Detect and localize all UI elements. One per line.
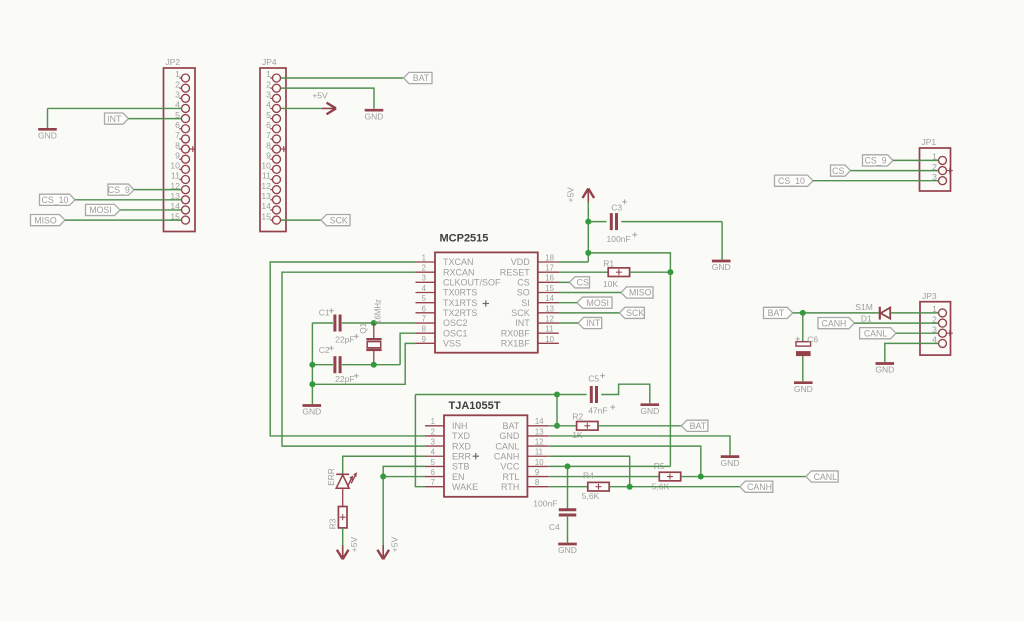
node BAT-C6 junction [800,310,806,316]
svg-text:CANL: CANL [814,472,838,482]
svg-text:7: 7 [422,314,426,323]
svg-text:VCC: VCC [500,462,520,472]
label D1 [861,314,872,324]
svg-text:GND: GND [721,458,740,468]
svg-text:BAT: BAT [690,421,707,431]
svg-text:8: 8 [535,478,539,487]
connector JP3 [920,291,953,355]
wire [383,476,425,478]
svg-text:ERR: ERR [452,451,472,461]
value 10K [603,279,618,289]
wire TXCAN-TXD [270,262,425,436]
wire [588,222,722,260]
svg-text:GND: GND [558,545,577,555]
svg-text:TX0RTS: TX0RTS [443,288,477,298]
wire [567,515,569,543]
wire [891,312,938,314]
wire [415,394,557,396]
svg-text:13: 13 [261,191,271,201]
label ERR [326,468,336,486]
wire VSS [312,343,415,384]
wire [549,446,701,476]
svg-text:GND: GND [875,365,894,375]
svg-text:10: 10 [545,335,554,344]
node CANH junction [627,484,633,490]
net label SCK [321,215,350,226]
svg-text:8: 8 [422,325,426,334]
svg-text:C3: C3 [611,203,622,213]
svg-text:3: 3 [175,90,180,100]
svg-text:CANH: CANH [821,318,846,328]
svg-text:4: 4 [422,284,427,293]
svg-text:13: 13 [545,304,554,313]
power +5V [377,537,399,560]
svg-text:JP2: JP2 [166,57,181,67]
wire [342,528,344,547]
wire [885,343,938,362]
svg-text:6: 6 [422,304,426,313]
svg-text:SCK: SCK [511,308,530,318]
svg-text:9: 9 [266,150,271,160]
power +5V [312,90,336,114]
wire RXCAN-RXD [282,272,425,446]
wire [383,466,425,547]
wire [896,332,938,334]
svg-text:10: 10 [535,458,544,467]
net label CANL [806,471,838,482]
net label INT [105,113,129,124]
svg-text:5,6K: 5,6K [582,491,600,501]
svg-text:1: 1 [431,417,435,426]
wire [312,322,415,324]
svg-text:6: 6 [266,120,271,130]
ground [712,261,731,272]
svg-text:+5V: +5V [312,90,328,100]
svg-text:EN: EN [452,472,465,482]
svg-text:R1: R1 [603,259,614,269]
svg-text:INT: INT [107,114,122,124]
svg-text:CANH: CANH [494,451,520,461]
svg-text:CS_9: CS_9 [864,156,886,166]
net label MOSI [86,204,121,215]
svg-text:BAT: BAT [768,308,785,318]
svg-text:RX0BF: RX0BF [501,328,531,338]
LED ERR [336,472,357,488]
svg-text:2: 2 [175,79,180,89]
label C1 [319,308,334,318]
svg-text:RTL: RTL [503,472,520,482]
capacitor C4 [559,510,577,515]
wire [598,425,681,427]
svg-text:RX1BF: RX1BF [501,339,531,349]
label C5 [588,373,605,383]
net label MISO [621,287,653,298]
label S1M [855,302,872,312]
svg-text:13: 13 [535,427,544,436]
svg-text:R3: R3 [327,518,337,529]
svg-text:MISO: MISO [34,215,57,225]
svg-text:3: 3 [422,274,426,283]
capacitor C2 [335,356,340,373]
svg-text:9: 9 [175,150,180,160]
wire [793,312,880,314]
svg-text:R2: R2 [572,411,583,421]
svg-text:10: 10 [170,161,180,171]
svg-text:100nF: 100nF [533,499,557,509]
wire [587,202,589,262]
ground [558,544,577,555]
label R2 [572,411,583,421]
svg-text:GND: GND [365,111,384,121]
svg-text:C4: C4 [549,522,560,532]
node VCC-C4 junction [565,463,571,469]
svg-text:BAT: BAT [413,73,430,83]
wire [802,356,804,381]
value 22pF [335,334,359,345]
svg-text:CS_9: CS_9 [108,185,130,195]
svg-text:JP4: JP4 [262,57,277,67]
power +5V [566,187,594,203]
wire [415,395,425,487]
transceiver U2 TJA1055T [425,400,549,497]
wire [556,395,558,426]
wire [851,170,939,172]
svg-text:12: 12 [261,181,271,191]
svg-text:CANH: CANH [747,482,772,492]
svg-text:15: 15 [261,211,271,221]
svg-text:CANL: CANL [864,328,888,338]
net label CS [570,277,590,288]
svg-text:INT: INT [515,318,530,328]
wire [549,465,671,467]
svg-text:14: 14 [545,294,554,303]
svg-text:CS: CS [577,278,589,288]
svg-text:16: 16 [545,274,554,283]
wire [120,209,181,211]
svg-text:S1M: S1M [855,302,872,312]
svg-text:100nF: 100nF [607,234,631,244]
wire [893,159,938,161]
svg-text:OSC2: OSC2 [443,318,468,328]
capacitor C3 [611,213,616,230]
svg-text:14: 14 [535,417,544,426]
resistor R3 [338,507,347,528]
node VDD junction [585,219,591,225]
resistor R5 [659,472,680,481]
wire [567,466,569,509]
ground [302,406,321,417]
wire VCC rail [669,272,671,466]
ground [721,457,740,468]
ground [640,405,659,416]
diode D1 S1M [880,307,890,320]
node VSS junction [309,381,315,387]
svg-text:7: 7 [175,130,180,140]
net label CANH [818,318,854,329]
net label CS [831,165,851,176]
svg-text:GND: GND [38,131,57,141]
svg-text:C1: C1 [319,308,330,318]
wire [281,88,374,109]
svg-text:2: 2 [422,264,426,273]
svg-text:BAT: BAT [503,421,520,431]
net label CS_10 [40,194,76,205]
wire [854,322,938,324]
svg-text:14: 14 [261,201,271,211]
wire [549,425,577,427]
wire [559,281,570,283]
wire [813,180,938,182]
svg-text:RXCAN: RXCAN [443,267,475,277]
wire [802,313,804,341]
svg-text:VDD: VDD [511,257,531,267]
wire [400,333,415,365]
svg-text:GND: GND [499,431,520,441]
wire [312,364,400,366]
node R1 branch [585,250,591,256]
wire [281,219,321,221]
op-amp U1 MCP2515 [416,232,559,352]
svg-text:+5V: +5V [349,537,359,553]
svg-text:11: 11 [545,325,553,334]
svg-text:1K: 1K [572,430,583,440]
svg-text:22pF: 22pF [335,335,354,345]
wire [129,118,182,120]
svg-text:R4: R4 [583,470,594,480]
node crystal bottom junction [371,362,377,368]
svg-text:2: 2 [431,427,435,436]
net label CANH [740,481,773,492]
svg-text:C5: C5 [588,374,599,384]
svg-text:5: 5 [431,458,436,467]
net label MOSI [577,297,612,308]
wire [549,456,630,486]
crystal Q1 [366,323,381,365]
wire [75,199,181,201]
svg-text:22pF: 22pF [335,374,354,384]
net label CS_9 [863,155,894,166]
svg-text:MCP2515: MCP2515 [440,232,489,244]
net label BAT [404,72,433,83]
svg-text:TXD: TXD [452,431,471,441]
svg-text:1: 1 [175,69,180,79]
svg-text:7: 7 [266,130,271,140]
node pin14 junction [554,423,560,429]
svg-text:3: 3 [266,90,271,100]
svg-text:47nF: 47nF [588,405,607,415]
label Q1 [358,322,368,333]
wire [48,108,182,128]
svg-text:1: 1 [422,253,426,262]
wire [588,253,670,272]
svg-text:SCK: SCK [626,308,644,318]
svg-text:2: 2 [266,79,271,89]
wire [559,302,578,304]
node OSC2 junction [371,320,377,326]
svg-text:CS: CS [517,278,530,288]
svg-text:10: 10 [261,161,271,171]
svg-text:10K: 10K [603,279,618,289]
svg-text:CS_10: CS_10 [42,195,69,205]
svg-text:4: 4 [266,100,271,110]
wire [629,271,670,273]
svg-text:SI: SI [521,298,530,308]
svg-text:CLKOUT/SOF: CLKOUT/SOF [443,278,501,288]
wire [559,322,579,324]
value 100nF [533,499,557,509]
svg-text:6: 6 [431,468,435,477]
wire [343,456,425,473]
svg-text:VSS: VSS [443,339,461,349]
wire [311,323,313,404]
svg-text:INT: INT [586,318,601,328]
label C3 [611,199,627,212]
wire [549,486,588,488]
svg-text:11: 11 [262,171,271,181]
value 22pF [335,373,359,384]
ground [794,383,813,394]
label C6 [807,334,818,344]
wire [559,261,589,263]
svg-text:INH: INH [452,421,468,431]
svg-text:7: 7 [431,478,435,487]
net label CS_9 [108,184,134,195]
value 16MHz [373,299,382,324]
wire [134,189,181,191]
svg-text:MOSI: MOSI [587,298,609,308]
connector JP2 [164,57,196,231]
label R4 [583,470,594,480]
svg-text:1: 1 [266,69,271,79]
wire [549,436,730,455]
svg-text:WAKE: WAKE [452,482,478,492]
svg-text:ERR: ERR [326,468,336,486]
wire [609,486,740,488]
svg-text:15: 15 [545,284,554,293]
value 100nF [607,232,638,244]
svg-text:C2: C2 [319,345,330,355]
resistor R1 [608,268,629,277]
connector JP4 [260,57,287,231]
svg-text:RXD: RXD [452,441,472,451]
net label CS_10 [775,175,814,186]
svg-text:SCK: SCK [330,215,348,225]
value 5,6K [652,481,670,491]
svg-text:OSC1: OSC1 [443,328,468,338]
svg-text:TXCAN: TXCAN [443,257,474,267]
svg-text:TX1RTS: TX1RTS [443,298,477,308]
svg-text:JP1: JP1 [922,137,937,147]
label R1 [603,259,614,269]
svg-text:12: 12 [545,314,554,323]
node EN junction [380,474,386,480]
wire [65,219,181,221]
svg-text:+5V: +5V [389,537,399,553]
net label CANL [860,328,896,339]
svg-text:GND: GND [794,384,813,394]
capacitor C1 [335,315,340,332]
svg-text:4: 4 [431,448,436,457]
svg-text:Q1: Q1 [358,322,368,333]
svg-text:MISO: MISO [629,288,652,298]
net label MISO [31,215,66,226]
label C2 [319,345,334,355]
wire [559,312,620,314]
svg-text:+5V: +5V [566,187,576,203]
svg-text:CS: CS [832,166,844,176]
svg-text:JP3: JP3 [922,291,937,301]
connector JP1 [920,137,953,191]
svg-text:6: 6 [175,120,180,130]
net label BAT [764,307,793,318]
svg-text:MOSI: MOSI [89,205,111,215]
node CANL junction [698,474,704,480]
svg-text:12: 12 [535,438,544,447]
svg-text:D1: D1 [861,314,872,324]
wire [681,476,806,478]
wire [549,476,659,478]
wire [342,488,344,506]
svg-text:GND: GND [712,262,731,272]
label C4 [549,522,560,532]
resistor R2 [577,422,598,431]
svg-text:18: 18 [545,253,554,262]
wire [559,292,622,294]
net label INT [578,317,602,328]
svg-text:16MHz: 16MHz [373,299,382,324]
ground [365,110,384,121]
ground [38,129,57,140]
power +5V [337,537,359,560]
net label SCK [619,307,644,318]
svg-text:GND: GND [302,407,321,417]
capacitor C6 [796,337,811,356]
svg-text:8: 8 [175,140,180,150]
svg-text:RESET: RESET [500,267,531,277]
svg-text:TJA1055T: TJA1055T [449,400,501,412]
wire [557,384,650,403]
svg-text:3: 3 [431,438,435,447]
ground [875,364,894,375]
svg-text:17: 17 [545,264,554,273]
svg-text:CS_10: CS_10 [778,176,805,186]
svg-text:CANL: CANL [495,441,519,451]
resistor R4 [588,482,609,491]
svg-text:SO: SO [517,288,530,298]
wire [281,77,404,79]
node VCC junction [667,269,673,275]
svg-text:9: 9 [422,335,426,344]
svg-text:11: 11 [171,171,180,181]
svg-text:STB: STB [452,462,470,472]
value 47nF [588,405,615,416]
svg-text:5: 5 [422,294,427,303]
node C2 left junction [309,362,315,368]
svg-text:GND: GND [640,406,659,416]
svg-text:11: 11 [535,448,543,457]
wire [559,271,609,273]
value 5,6K [582,491,600,501]
wire [281,107,322,109]
svg-text:C6: C6 [807,334,818,344]
svg-text:TX2RTS: TX2RTS [443,308,477,318]
svg-text:9: 9 [535,468,539,477]
label R5 [654,461,665,471]
svg-text:8: 8 [266,140,271,150]
net label BAT [681,420,708,431]
capacitor C5 [591,386,596,403]
value 1K [572,430,583,440]
